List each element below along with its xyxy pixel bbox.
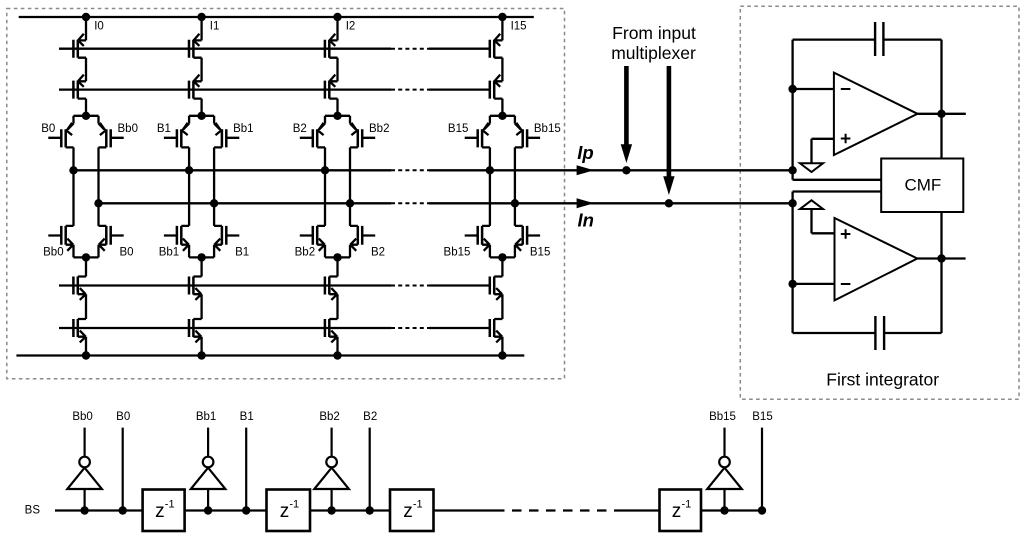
svg-text:-1: -1 (289, 498, 299, 510)
svg-text:B1: B1 (240, 411, 254, 423)
svg-text:I1: I1 (210, 21, 220, 33)
svg-text:Bb0: Bb0 (43, 246, 63, 258)
svg-text:Bb1: Bb1 (159, 246, 179, 258)
svg-text:-1: -1 (165, 498, 175, 510)
svg-text:Bb15: Bb15 (709, 411, 736, 423)
svg-text:I2: I2 (346, 21, 356, 33)
svg-text:B15: B15 (530, 246, 550, 258)
svg-text:z: z (155, 501, 165, 522)
svg-text:Bb15: Bb15 (444, 246, 471, 258)
svg-text:B1: B1 (235, 246, 249, 258)
svg-text:B2: B2 (371, 246, 385, 258)
svg-text:Bb0: Bb0 (118, 123, 138, 135)
svg-text:Ip: Ip (577, 142, 593, 163)
svg-text:From input: From input (612, 23, 696, 43)
svg-text:B2: B2 (293, 123, 307, 135)
svg-text:z: z (280, 501, 290, 522)
svg-text:B2: B2 (363, 411, 377, 423)
svg-text:Bb2: Bb2 (319, 411, 339, 423)
svg-text:Bb1: Bb1 (196, 411, 216, 423)
svg-text:I0: I0 (94, 21, 104, 33)
svg-text:CMF: CMF (904, 176, 941, 195)
svg-text:-1: -1 (682, 498, 692, 510)
svg-text:Bb15: Bb15 (534, 123, 561, 135)
svg-text:BS: BS (25, 505, 41, 517)
svg-text:B0: B0 (116, 411, 130, 423)
svg-text:B15: B15 (752, 411, 772, 423)
svg-text:Bb0: Bb0 (72, 411, 92, 423)
svg-text:B1: B1 (157, 123, 171, 135)
svg-text:-1: -1 (413, 498, 423, 510)
svg-text:B0: B0 (120, 246, 134, 258)
svg-text:Bb2: Bb2 (295, 246, 315, 258)
svg-text:Bb2: Bb2 (369, 123, 389, 135)
svg-text:B0: B0 (41, 123, 55, 135)
svg-text:B15: B15 (448, 123, 468, 135)
svg-text:First integrator: First integrator (826, 370, 939, 390)
svg-text:In: In (578, 210, 594, 231)
svg-text:z: z (672, 501, 682, 522)
svg-text:multiplexer: multiplexer (611, 43, 696, 63)
svg-text:Bb1: Bb1 (233, 123, 253, 135)
svg-text:I15: I15 (511, 21, 527, 33)
svg-text:z: z (403, 501, 413, 522)
